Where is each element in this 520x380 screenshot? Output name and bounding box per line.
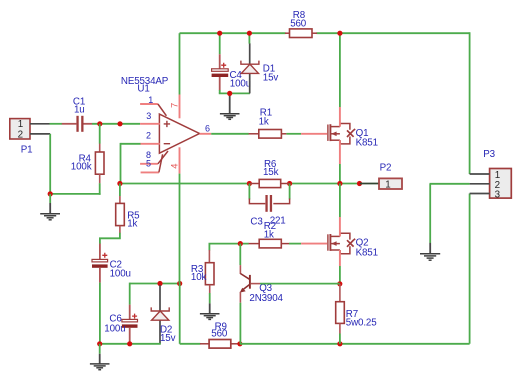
junction top rail / Q1 drain	[337, 31, 342, 36]
svg-text:5: 5	[146, 158, 151, 168]
U1 pin 1 stub	[140, 104, 166, 116]
junction C1/R4	[97, 121, 102, 126]
zener diode D1	[241, 61, 259, 74]
wire Q1 source down	[339, 140, 341, 183]
wire R4 top to input line	[99, 124, 101, 144]
svg-text:P3: P3	[483, 149, 495, 160]
svg-text:15v: 15v	[263, 73, 279, 84]
ground below R3	[200, 293, 220, 319]
svg-text:1u: 1u	[74, 105, 85, 116]
svg-text:2: 2	[18, 129, 23, 140]
resistor R1	[249, 130, 287, 139]
wire C4/D1 bottom node	[219, 90, 250, 93]
wire Q3 base to R7 node	[260, 283, 340, 285]
U1 pin 3 lead	[140, 123, 160, 125]
junction P1 pin2 / ground	[48, 191, 53, 196]
wire C6/D2 top line	[130, 283, 180, 305]
svg-text:1k: 1k	[259, 116, 269, 127]
ground below P1	[40, 194, 60, 220]
svg-text:3: 3	[495, 190, 501, 201]
junction C6 line / D2	[157, 281, 162, 286]
junction R2/R3/Q3	[238, 241, 243, 246]
capacitor C2	[92, 244, 108, 283]
capacitor C4	[212, 63, 229, 91]
svg-text:2N3904: 2N3904	[249, 293, 283, 304]
U1 pin 2 lead	[140, 143, 160, 145]
junction R7/bottom rail	[337, 341, 342, 346]
Q2 gate pin lead	[301, 243, 327, 245]
wire R4 bottom to P1 pin2 node	[50, 134, 100, 195]
junction feedback/C3 right	[287, 181, 292, 186]
svg-text:15k: 15k	[263, 167, 279, 178]
svg-text:1: 1	[385, 179, 390, 190]
ground below C2	[90, 344, 110, 370]
wire Q2 source down	[339, 250, 341, 284]
wire C2 bottom	[99, 283, 101, 344]
U1 pin 4 lead (V-)	[179, 147, 181, 173]
svg-text:100u: 100u	[230, 78, 251, 89]
transistor Q1 (MOSFET K851)	[328, 124, 355, 144]
op-amp U1	[159, 114, 199, 153]
wire C4 top lead	[219, 33, 221, 69]
connector P1	[10, 119, 30, 139]
svg-text:560: 560	[211, 329, 228, 340]
P1 pin1 lead	[30, 123, 50, 125]
wire D1 top	[248, 33, 250, 43]
svg-text:560: 560	[290, 18, 307, 29]
junction feedback/P2	[357, 181, 362, 186]
connector P3	[490, 169, 512, 199]
wire Q1 drain	[339, 33, 341, 126]
U1 pin 6 output lead	[200, 133, 212, 135]
P3 pin3 lead	[470, 193, 490, 195]
junction input node	[117, 121, 122, 126]
wire R2 to Q2 gate	[289, 243, 301, 245]
svg-text:4: 4	[169, 164, 180, 169]
ground below P3 pin2	[420, 243, 440, 260]
svg-text:K851: K851	[356, 138, 378, 149]
svg-text:10k: 10k	[191, 272, 207, 283]
wire R1 to Q1 gate	[286, 133, 301, 135]
capacitor C1	[62, 116, 92, 132]
transistor Q2 (MOSFET K851)	[328, 233, 355, 253]
svg-text:5w0.25: 5w0.25	[346, 317, 377, 328]
svg-text:1k: 1k	[264, 229, 274, 240]
wire bottom-left ground rail	[99, 343, 161, 345]
wire output to R1	[211, 133, 249, 135]
svg-text:6: 6	[205, 124, 210, 134]
wire bottom rail right	[240, 194, 470, 344]
wire Q3 emitter down	[239, 303, 241, 344]
U1 pin 7 lead (V+)	[179, 95, 181, 119]
svg-text:P1: P1	[21, 144, 33, 155]
resistor R9	[200, 340, 240, 349]
wire top positive rail	[180, 32, 470, 174]
resistor R7	[336, 284, 345, 344]
junction C2/ground	[97, 341, 102, 346]
svg-text:3: 3	[146, 111, 151, 121]
zener diode D2	[151, 307, 169, 320]
svg-text:100u: 100u	[110, 268, 131, 279]
P3 pin1 lead	[470, 173, 490, 175]
P3 pin2 lead	[470, 183, 490, 185]
ground below C4/D1	[220, 96, 240, 120]
wire C1 to op-amp input	[92, 123, 140, 125]
junction top rail / D1	[247, 31, 252, 36]
junction R9/Q3 emitter	[237, 341, 242, 346]
junction Q2 source/Q3 base/R7	[337, 281, 342, 286]
wire P1 pin1 to C1	[50, 123, 63, 125]
svg-text:1: 1	[18, 119, 23, 130]
U1 pin 8 stub	[140, 151, 168, 164]
svg-text:1k: 1k	[127, 219, 137, 230]
svg-text:7: 7	[169, 103, 180, 108]
diode D2 leads	[159, 285, 161, 344]
junction top rail / C4	[217, 31, 222, 36]
junction feedback/R5	[117, 181, 122, 186]
junction C6 line / V-	[177, 281, 182, 286]
resistor R4	[95, 143, 104, 183]
connector P2	[360, 178, 402, 189]
junction C6/rail	[127, 341, 132, 346]
capacitor C3	[249, 184, 289, 212]
svg-text:100u: 100u	[104, 324, 125, 335]
junction feedback/C3 left	[247, 181, 252, 186]
svg-text:K851: K851	[356, 248, 378, 259]
wire feedback line	[121, 183, 360, 185]
wire V- rail (op-amp pin4 down)	[180, 174, 201, 344]
svg-text:C3: C3	[250, 216, 263, 227]
junction C4/D1 ground node	[227, 91, 232, 96]
wire R5 to C2	[100, 233, 120, 244]
junction feedback/Q1-Q2	[337, 181, 342, 186]
wire Q2 drain up	[339, 184, 341, 237]
resistor R6	[250, 179, 289, 187]
transistor Q3 (2N3904)	[240, 244, 260, 303]
wire stem to ground	[229, 93, 231, 96]
svg-text:P2: P2	[380, 162, 392, 173]
wire P3 pin2 to ground	[430, 184, 470, 243]
resistor R2	[249, 239, 289, 248]
wire pin2 feedback branch	[121, 143, 141, 184]
P1 pin2 lead	[30, 133, 50, 135]
svg-text:15v: 15v	[160, 333, 176, 344]
svg-text:1: 1	[148, 95, 153, 105]
resistor R5	[116, 184, 125, 234]
svg-text:2: 2	[146, 130, 151, 140]
resistor R8	[285, 29, 317, 38]
U1 pin 5 stub	[141, 154, 163, 172]
diode D1 leads	[249, 43, 251, 93]
capacitor C6	[122, 305, 138, 344]
wire R2 node	[209, 244, 248, 251]
Q1 gate pin lead	[301, 133, 327, 135]
svg-text:U1: U1	[137, 84, 149, 95]
resistor R3	[205, 250, 214, 293]
svg-text:100k: 100k	[71, 162, 92, 173]
